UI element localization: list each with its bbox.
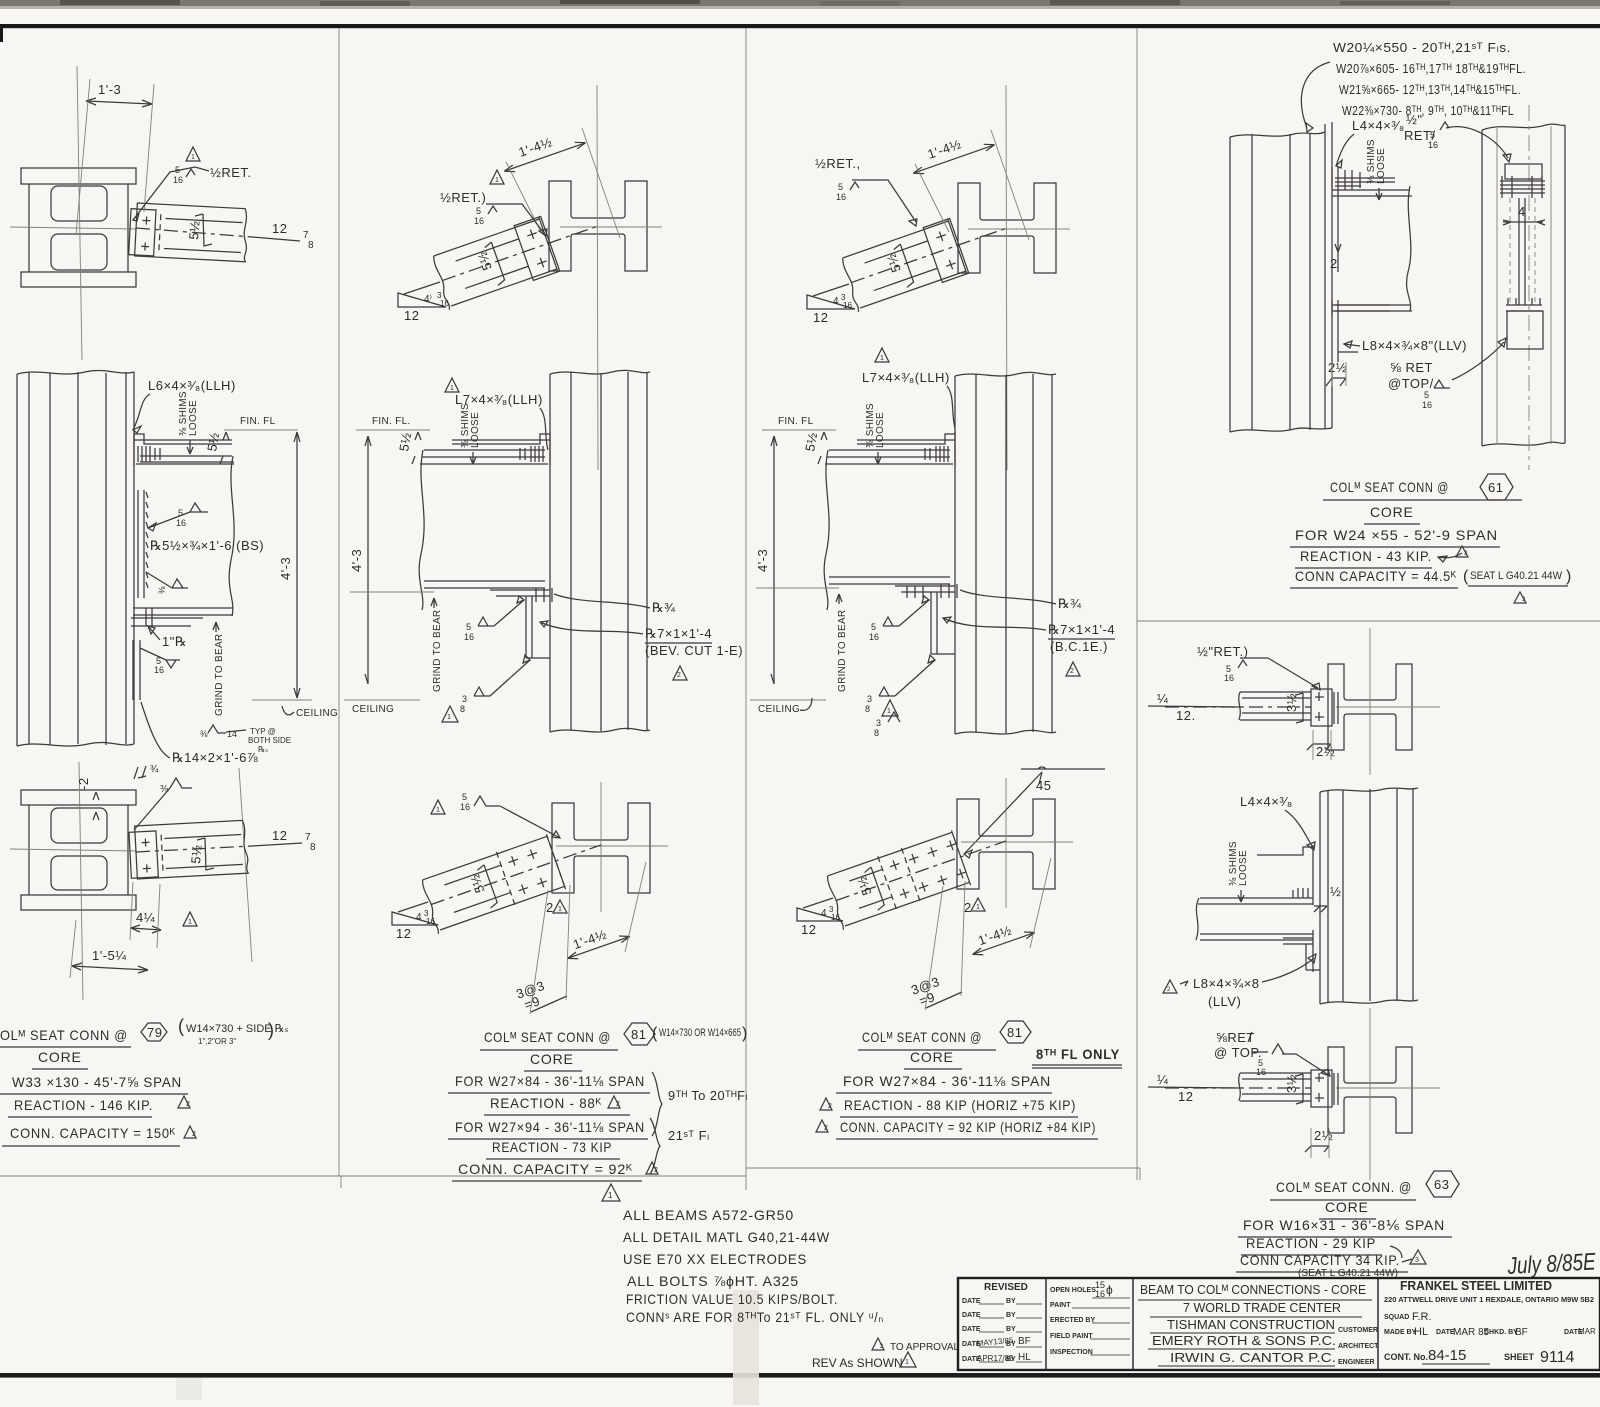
svg-text:SHEET: SHEET — [1504, 1352, 1535, 1362]
beam horizontal from left — [1239, 692, 1311, 720]
detail 1 middle: seat connection elevation — [17, 370, 134, 746]
svg-text:16: 16 — [154, 665, 164, 675]
column plan: bottom flange — [21, 272, 136, 287]
slope triangle 12 / 4-3/16 — [398, 293, 446, 307]
beam W27 from left — [420, 450, 548, 464]
svg-text:8: 8 — [874, 728, 879, 738]
svg-text:⅝ RET: ⅝ RET — [1390, 360, 1433, 375]
svg-text:4⁾: 4⁾ — [424, 294, 433, 305]
svg-text:COLᴹ SEAT CONN @: COLᴹ SEAT CONN @ — [862, 1029, 982, 1045]
svg-text:COLᴹ SEAT CONN @: COLᴹ SEAT CONN @ — [1330, 479, 1449, 495]
svg-text:℞7×1×1'-4: ℞7×1×1'-4 — [645, 626, 712, 641]
beam W27 plan angled — [430, 200, 608, 310]
svg-text:L4×4×³∕₈: L4×4×³∕₈ — [1240, 794, 1293, 809]
scan edge noise band top — [0, 0, 1600, 6]
beam plan bottom (sloped up to right) — [129, 820, 249, 879]
svg-text:16: 16 — [869, 632, 879, 642]
seat angle L6x4x3/8 top — [134, 432, 232, 466]
svg-text:REACTION - 88 KIP (HORIZ +75: REACTION - 88 KIP (HORIZ +75 KIP) — [844, 1097, 1076, 1113]
svg-text:16: 16 — [1256, 1067, 1266, 1077]
svg-text:1'-3: 1'-3 — [98, 82, 121, 97]
svg-text:1: 1 — [558, 906, 562, 913]
svg-text:W22⅜×730- 8ᵀᴴ, 9ᵀᴴ, 10ᵀᴴ&11ᵀᴴ: W22⅜×730- 8ᵀᴴ, 9ᵀᴴ, 10ᵀᴴ&11ᵀᴴFL — [1342, 103, 1514, 118]
slope mark 12 : 7/8 — [252, 237, 300, 241]
svg-text:1: 1 — [450, 385, 454, 392]
svg-text:16: 16 — [836, 192, 846, 202]
svg-text:@TOP/: @TOP/ — [1388, 376, 1434, 391]
detail 3 top: column I-section plan view — [958, 183, 1056, 273]
svg-text:(BEV. CUT 1-E): (BEV. CUT 1-E) — [645, 643, 743, 658]
beam plan angled lower — [419, 819, 611, 934]
plan detail lower — [1328, 1047, 1412, 1133]
svg-text:BOTH SIDE: BOTH SIDE — [248, 736, 291, 745]
svg-text:L7×4×³∕₈(LLH): L7×4×³∕₈(LLH) — [862, 370, 950, 385]
svg-text:¼: ¼ — [1157, 691, 1168, 706]
shims hatch detail 3 — [925, 446, 948, 462]
detail 3 middle: seat connection elevation, column right — [955, 372, 1056, 734]
svg-text:2: 2 — [1330, 256, 1338, 271]
svg-text:REACTION - 43 KIP.: REACTION - 43 KIP. — [1300, 548, 1432, 564]
svg-text:(: ( — [178, 1016, 184, 1036]
svg-text:IRWIN G. CANTOR P.C.: IRWIN G. CANTOR P.C. — [1170, 1350, 1336, 1365]
svg-text:W33 ×130 - 45'-7⅝ SPAN: W33 ×130 - 45'-7⅝ SPAN — [12, 1074, 182, 1090]
svg-text:5: 5 — [466, 622, 471, 632]
svg-text:CONNˢ ARE FOR 8ᵀᴴTo 21ˢᵀ FL.: CONNˢ ARE FOR 8ᵀᴴTo 21ˢᵀ FL. ONLY ᵘ/ₙ — [626, 1309, 884, 1325]
svg-text:12: 12 — [813, 310, 828, 325]
svg-text:GRIND TO BEAR: GRIND TO BEAR — [837, 610, 848, 692]
svg-text:July 8/85E: July 8/85E — [1506, 1248, 1597, 1280]
svg-text:CUSTOMER: CUSTOMER — [1338, 1327, 1378, 1334]
middle-left column — [1050, 1287, 1096, 1356]
svg-text:ALL DETAIL MATL G40,21-44W: ALL DETAIL MATL G40,21-44W — [623, 1229, 830, 1245]
rev triangle — [442, 706, 458, 722]
svg-text:5: 5 — [1424, 390, 1429, 400]
svg-text:16: 16 — [1422, 400, 1432, 410]
weld 5/16 + triangle — [431, 800, 445, 814]
svg-text:TO APPROVAL: TO APPROVAL — [890, 1342, 960, 1353]
svg-text:BF: BF — [1018, 1336, 1031, 1347]
rev triangle 1 above label — [445, 378, 459, 392]
svg-text:BEAM TO COLᴹ CONNECTIONS - CO: BEAM TO COLᴹ CONNECTIONS - CORE — [1140, 1282, 1366, 1297]
svg-text:3: 3 — [876, 718, 881, 728]
vertical separator col3/right — [1136, 28, 1138, 1180]
horizontal separator right blocks — [1137, 620, 1600, 622]
svg-text:2: 2 — [186, 1101, 190, 1108]
svg-text:FOR W27×84 - 36'-11⅛ SPAN: FOR W27×84 - 36'-11⅛ SPAN — [843, 1073, 1051, 1089]
elevation detail — [1320, 788, 1418, 1004]
svg-text:4: 4 — [416, 912, 422, 923]
svg-text:4'-3: 4'-3 — [278, 557, 293, 580]
beam centreline horizontal detail 3 — [968, 228, 1070, 230]
bottom heavy border line — [0, 1373, 1600, 1378]
svg-text:REACTION - 73 KIP: REACTION - 73 KIP — [492, 1139, 612, 1155]
rev triangle 1 — [602, 1184, 620, 1201]
svg-text:4'-3: 4'-3 — [755, 549, 770, 572]
svg-text:(: ( — [652, 1025, 658, 1042]
svg-text:1: 1 — [191, 154, 195, 161]
ceiling — [344, 699, 420, 701]
svg-text:½RET.): ½RET.) — [440, 190, 486, 205]
beam centreline dashed — [136, 228, 252, 237]
beam bottom flange — [133, 608, 233, 615]
svg-text:OPEN HOLES: OPEN HOLES — [1050, 1287, 1096, 1294]
dim 3@3=9 bottom detail 3 — [909, 974, 946, 1010]
leader from list to column — [1301, 62, 1330, 128]
svg-text:DATE: DATE — [962, 1326, 981, 1333]
svg-text:1: 1 — [880, 355, 884, 362]
column shaft elevation — [17, 370, 134, 374]
dim 4'-3 — [296, 432, 298, 698]
svg-text:45: 45 — [1036, 778, 1051, 793]
beam between columns — [1332, 190, 1412, 311]
svg-text:GRIND TO BEAR: GRIND TO BEAR — [214, 634, 225, 716]
dim 1'-3 — [86, 101, 152, 104]
svg-text:3: 3 — [867, 694, 872, 704]
bearing seat below beam — [131, 618, 203, 626]
svg-text:℞¾: ℞¾ — [1058, 596, 1082, 611]
45 deg bevel note detail 3 — [1021, 768, 1105, 770]
svg-text:5: 5 — [175, 165, 180, 175]
svg-text:BY: BY — [1006, 1326, 1016, 1333]
detail 1 bottom: column section plan view — [10, 762, 252, 1000]
svg-text:CONT. No.: CONT. No. — [1384, 1352, 1428, 1362]
svg-text:ERECTED BY: ERECTED BY — [1050, 1317, 1095, 1324]
svg-text:12: 12 — [1178, 1089, 1193, 1104]
svg-text:2½: 2½ — [1314, 1128, 1333, 1143]
svg-text:LOOSE: LOOSE — [1238, 850, 1249, 886]
svg-text:LOOSE: LOOSE — [1376, 148, 1387, 184]
svg-text:½RET.: ½RET. — [210, 165, 252, 180]
svg-text:21ˢᵀ Fₗ: 21ˢᵀ Fₗ — [668, 1128, 710, 1143]
svg-text:W21⅝×665- 12ᵀᴴ,13ᵀᴴ,14ᵀᴴ&15ᵀᴴ: W21⅝×665- 12ᵀᴴ,13ᵀᴴ,14ᵀᴴ&15ᵀᴴFL. — [1339, 82, 1521, 97]
ceiling line + label — [252, 699, 312, 701]
svg-text:12: 12 — [272, 221, 287, 236]
column W14x730 plan: top flange — [21, 168, 136, 184]
rev triangle 1 — [183, 912, 197, 926]
svg-text:12: 12 — [272, 828, 287, 843]
svg-text:LOOSE: LOOSE — [875, 412, 886, 448]
outer box — [958, 1278, 1600, 1370]
rev triangle 1 — [186, 147, 200, 161]
bottom angle L8 — [1332, 300, 1338, 362]
svg-text:W20⅞×605- 16ᵀᴴ,17ᵀᴴ 18ᵀᴴ&19ᵀᴴ: W20⅞×605- 16ᵀᴴ,17ᵀᴴ 18ᵀᴴ&19ᵀᴴFL. — [1336, 61, 1526, 76]
svg-text:℞5½×¾×1'-6 (BS): ℞5½×¾×1'-6 (BS) — [150, 538, 264, 553]
svg-text:81: 81 — [1007, 1025, 1022, 1040]
left edge stub — [0, 24, 3, 42]
svg-text:ARCHITECT: ARCHITECT — [1338, 1343, 1379, 1350]
detail 3 bottom: column I-section plan view — [957, 799, 1055, 889]
svg-text:COLᴹ SEAT CONN @: COLᴹ SEAT CONN @ — [484, 1029, 611, 1045]
svg-text:CEILING: CEILING — [296, 708, 338, 719]
svg-text:W14×730 OR W14×665: W14×730 OR W14×665 — [659, 1027, 741, 1039]
dim 1'-4 1/2 — [498, 124, 587, 175]
svg-text:63: 63 — [1434, 1177, 1449, 1192]
svg-text:CONN CAPACITY 34 KIP.: CONN CAPACITY 34 KIP. — [1240, 1252, 1400, 1268]
svg-text:ϕ: ϕ — [1106, 1283, 1113, 1297]
svg-text:16: 16 — [1224, 673, 1234, 683]
svg-text:2: 2 — [824, 1125, 828, 1132]
svg-text:½": ½" — [1406, 112, 1422, 127]
svg-text:℞7×1×1'-4: ℞7×1×1'-4 — [1048, 622, 1115, 637]
svg-text:USE E70 XX ELECTRODES: USE E70 XX ELECTRODES — [623, 1251, 807, 1267]
L8 label — [1163, 980, 1177, 993]
beam W33 plan (slightly sloped) — [129, 203, 249, 262]
svg-text:FIN. FL.: FIN. FL. — [372, 416, 411, 427]
svg-text:ALL BOLTS ⅞ϕHT. A325: ALL BOLTS ⅞ϕHT. A325 — [627, 1273, 799, 1289]
svg-text:4'-3: 4'-3 — [349, 549, 364, 572]
svg-text:CEILING: CEILING — [352, 704, 394, 715]
svg-text:1"℞: 1"℞ — [162, 634, 187, 649]
svg-text:5: 5 — [871, 622, 876, 632]
svg-text:1: 1 — [905, 1359, 909, 1366]
slope triangle 12 : 4-3/16 detail 3 — [807, 295, 855, 309]
svg-text:FRANKEL STEEL LIMITED: FRANKEL STEEL LIMITED — [1400, 1278, 1552, 1293]
svg-text:16: 16 — [843, 301, 852, 310]
svg-text:1: 1 — [436, 807, 440, 814]
svg-text:FOR W24 ×55 - 52'-9 SPAN: FOR W24 ×55 - 52'-9 SPAN — [1295, 527, 1498, 543]
svg-text:℞14×2×1'-6⅞: ℞14×2×1'-6⅞ — [172, 750, 258, 765]
svg-text:4¼: 4¼ — [136, 910, 155, 925]
bottom angle — [1283, 930, 1320, 972]
svg-text:BY: BY — [1006, 1312, 1016, 1319]
beam tail + slope triangle bottom detail 3 — [803, 898, 833, 908]
svg-text:¼: ¼ — [1157, 1072, 1168, 1087]
shims hatch — [138, 446, 160, 462]
svg-text:CORE: CORE — [1325, 1199, 1369, 1215]
beam W27 plan angled detail 3 — [839, 202, 1017, 312]
bottom plate strip — [133, 640, 140, 700]
faint tape mark — [733, 1290, 759, 1405]
svg-text:4: 4 — [821, 908, 827, 919]
svg-text:℞¾: ℞¾ — [652, 600, 676, 615]
svg-text:BF: BF — [1515, 1327, 1528, 1338]
dim 1'-4 1/2 bottom detail 3 — [967, 916, 1037, 959]
svg-text:CEILING: CEILING — [758, 704, 800, 715]
svg-text:CORE: CORE — [530, 1051, 574, 1067]
svg-text:GRIND TO BEAR: GRIND TO BEAR — [432, 610, 443, 692]
plan detail upper: I-section + beam — [1328, 664, 1412, 750]
rev triangle 1 — [490, 170, 504, 184]
svg-text:MADE BY: MADE BY — [1384, 1329, 1417, 1336]
svg-text:16: 16 — [1428, 140, 1438, 150]
beam web break wavy — [229, 456, 234, 616]
stiffener plate — [138, 490, 144, 598]
dim 4 1/4 — [131, 928, 161, 930]
svg-text:⅜: ⅜ — [200, 729, 208, 739]
svg-text:½RET.,: ½RET., — [815, 156, 861, 171]
svg-text:1: 1 — [447, 714, 451, 721]
svg-text:16: 16 — [464, 632, 474, 642]
svg-text:2½: 2½ — [1316, 744, 1335, 759]
svg-text:16: 16 — [426, 917, 435, 926]
svg-text:ALL BEAMS A572-GR50: ALL BEAMS A572-GR50 — [623, 1207, 794, 1223]
svg-text:SQUAD: SQUAD — [1384, 1314, 1409, 1321]
column centreline — [597, 85, 598, 470]
bolted end plate — [129, 209, 156, 256]
rev triangle 1 above middle — [875, 348, 889, 362]
seat angle L7 detail 3 — [857, 432, 955, 466]
svg-text:3: 3 — [462, 694, 467, 704]
svg-text:FOR W27×94 - 36'-11⅛ SPAN: FOR W27×94 - 36'-11⅛ SPAN — [455, 1119, 645, 1135]
svg-text:8: 8 — [865, 704, 870, 714]
svg-text:16: 16 — [440, 299, 449, 308]
svg-text:L6×4×³∕₈(LLH): L6×4×³∕₈(LLH) — [148, 378, 236, 393]
svg-text:9114: 9114 — [1540, 1349, 1575, 1366]
svg-text:16: 16 — [1095, 1289, 1105, 1299]
svg-text:): ) — [742, 1025, 747, 1042]
svg-text:9ᵀᴴ To 20ᵀᴴFₗ: 9ᵀᴴ To 20ᵀᴴFₗ — [668, 1088, 748, 1103]
svg-text:4: 4 — [833, 296, 839, 307]
svg-text:61: 61 — [1488, 480, 1503, 495]
beam tail line — [404, 282, 440, 294]
svg-text:CONN. CAPACITY = 92ᴷ: CONN. CAPACITY = 92ᴷ — [458, 1161, 633, 1177]
detail 1 top: column section plan view — [10, 66, 136, 360]
svg-text:LOOSE: LOOSE — [470, 412, 481, 448]
svg-text:BY: BY — [1006, 1298, 1016, 1305]
svg-text:1: 1 — [495, 177, 499, 184]
svg-text:⅜: ⅜ — [160, 784, 169, 795]
svg-text:CONN. CAPACITY = 92 KIP (HORI: CONN. CAPACITY = 92 KIP (HORIZ +84 KIP) — [840, 1119, 1096, 1135]
svg-text:L8×4×¾×8: L8×4×¾×8 — [1193, 976, 1260, 991]
svg-text:2: 2 — [677, 672, 681, 679]
svg-text:2: 2 — [654, 1167, 658, 1174]
inner flange edge lines — [166, 219, 243, 223]
svg-text:REACTION - 88ᴷ: REACTION - 88ᴷ — [490, 1095, 602, 1111]
svg-text:TYP @: TYP @ — [250, 727, 276, 736]
beam centreline horizontal — [560, 226, 662, 228]
seat angle L7 — [452, 432, 550, 466]
svg-text:⅜: ⅜ — [157, 586, 167, 594]
svg-text:½"RET.): ½"RET.) — [1197, 644, 1248, 659]
left column elevation — [1230, 122, 1332, 432]
svg-text:FRICTION VALUE 10.5 KIPS/BOL: FRICTION VALUE 10.5 KIPS/BOLT. — [626, 1291, 838, 1307]
svg-text:5: 5 — [476, 206, 481, 216]
svg-text:2½: 2½ — [1328, 360, 1347, 375]
svg-text:HL: HL — [1018, 1352, 1031, 1363]
hexagon 79 — [141, 1023, 167, 1041]
svg-text:-2: -2 — [76, 777, 91, 790]
svg-text:OLᴹ SEAT CONN @: OLᴹ SEAT CONN @ — [0, 1027, 128, 1043]
svg-text:8ᵀᴴ FL ONLY: 8ᵀᴴ FL ONLY — [1036, 1046, 1120, 1062]
svg-text:8: 8 — [460, 704, 465, 714]
bottom border of drawing blocks — [0, 1175, 746, 1177]
svg-text:3: 3 — [1415, 1257, 1419, 1264]
detail 2 bottom: I-section plan — [552, 803, 650, 893]
svg-text:12: 12 — [404, 308, 419, 323]
svg-text:3½: 3½ — [1284, 693, 1299, 712]
svg-text:REVISED: REVISED — [984, 1282, 1028, 1293]
beam W27 elevation top flange detail 3 — [825, 450, 953, 464]
svg-text:W20¼×550 - 20ᵀᴴ,21ˢᵀ Fₗs.: W20¼×550 - 20ᵀᴴ,21ˢᵀ Fₗs. — [1333, 40, 1511, 55]
svg-text:CORE: CORE — [1370, 504, 1414, 520]
seat bracket below beam detail 3 — [895, 586, 955, 592]
svg-text:F.R.: F.R. — [1412, 1311, 1432, 1323]
svg-text:1: 1 — [608, 1191, 613, 1200]
svg-text:¾: ¾ — [150, 764, 159, 775]
svg-text:16: 16 — [474, 216, 484, 226]
svg-text:12.: 12. — [1176, 708, 1196, 723]
svg-text:1: 1 — [188, 919, 192, 926]
svg-text:4: 4 — [1518, 204, 1526, 219]
svg-text:MAR: MAR — [1578, 1327, 1596, 1336]
seat bracket below beam — [490, 590, 550, 596]
dim 4'-3 detail 3 — [773, 436, 775, 684]
column plan: web voids — [51, 186, 107, 221]
svg-text:3½: 3½ — [1284, 1074, 1299, 1093]
svg-text:EMERY ROTH & SONS P.C.: EMERY ROTH & SONS P.C. — [1152, 1333, 1336, 1348]
svg-text:5: 5 — [838, 182, 843, 192]
svg-text:2: 2 — [192, 1131, 196, 1138]
vertical separator col2/col3 — [745, 28, 747, 1190]
svg-text:⅝RET: ⅝RET — [1216, 1030, 1255, 1045]
beam centreline at column — [10, 227, 136, 229]
svg-text:1'-5¼: 1'-5¼ — [92, 948, 127, 963]
svg-text:12: 12 — [396, 926, 411, 941]
svg-text:81: 81 — [631, 1027, 646, 1042]
svg-text:CHKD. BY: CHKD. BY — [1484, 1329, 1518, 1336]
dim 1'-4 1/2 detail 3 — [907, 126, 996, 177]
seat angle + shims left — [1332, 167, 1338, 252]
dim 4'-3 — [367, 436, 369, 684]
svg-text:12: 12 — [801, 922, 816, 937]
approval notes — [872, 1338, 884, 1350]
beam end elevation in right column — [1505, 164, 1542, 179]
svg-text:FOR W27×84 - 36'-11⅛ SPAN: FOR W27×84 - 36'-11⅛ SPAN — [455, 1073, 645, 1089]
top border heavy line — [0, 24, 1600, 28]
svg-text:79: 79 — [147, 1025, 162, 1040]
svg-text:5½: 5½ — [186, 220, 203, 240]
vertical separator col1/col2 — [338, 28, 340, 1176]
svg-text:220 ATTWELL DRIVE UNIT 1 R: 220 ATTWELL DRIVE UNIT 1 REXDALE, ONTARI… — [1384, 1295, 1594, 1304]
svg-text:CONN CAPACITY = 44.5ᴷ: CONN CAPACITY = 44.5ᴷ — [1295, 568, 1457, 584]
svg-text:FOR W16×31 - 36'-8⅙ SPAN: FOR W16×31 - 36'-8⅙ SPAN — [1243, 1217, 1445, 1233]
ceiling line detail 3 — [750, 699, 826, 701]
svg-text:8: 8 — [308, 240, 314, 251]
svg-text:CONN. CAPACITY = 150ᴷ: CONN. CAPACITY = 150ᴷ — [10, 1125, 176, 1141]
svg-text:(: ( — [1463, 568, 1469, 585]
svg-text:REACTION - 146 KIP.: REACTION - 146 KIP. — [14, 1097, 153, 1113]
beam web break wavy detail 3 — [824, 450, 829, 610]
svg-text:ENGINEER: ENGINEER — [1338, 1359, 1375, 1366]
svg-text:16: 16 — [460, 802, 470, 812]
beam W33 from right: top flange — [136, 456, 234, 464]
seat angle top — [1257, 845, 1313, 905]
svg-text:LOOSE: LOOSE — [188, 400, 199, 436]
beam bottom flange detail 3 — [829, 577, 950, 584]
svg-text:L4×4×³∕₈: L4×4×³∕₈ — [1352, 118, 1405, 133]
svg-text:APR17/85: APR17/85 — [977, 1354, 1014, 1363]
svg-text:REACTION - 29 KIP: REACTION - 29 KIP — [1246, 1235, 1376, 1251]
svg-text:FIELD PAINT: FIELD PAINT — [1050, 1333, 1093, 1340]
beam W27 plan angled bottom detail 3 — [824, 815, 1016, 930]
svg-text:2: 2 — [964, 900, 972, 915]
bolts — [141, 216, 151, 250]
svg-text:2: 2 — [1070, 668, 1074, 675]
svg-text:FIN. FL: FIN. FL — [778, 416, 814, 427]
svg-text:℞ₛ: ℞ₛ — [258, 745, 268, 754]
column plan: side plate lines — [28, 184, 30, 272]
column centreline — [77, 66, 82, 360]
svg-text:2: 2 — [828, 1103, 832, 1110]
right column elevation — [1482, 105, 1565, 470]
svg-text:CORE: CORE — [38, 1049, 82, 1065]
svg-text:84-15: 84-15 — [1428, 1347, 1466, 1364]
svg-text:5: 5 — [1430, 130, 1435, 140]
svg-text:REV As SHOWN: REV As SHOWN — [812, 1356, 903, 1370]
svg-text:(B.C.1E.): (B.C.1E.) — [1050, 639, 1108, 654]
svg-text:16: 16 — [831, 913, 840, 922]
svg-text:1",2"OR 3": 1",2"OR 3" — [198, 1037, 236, 1046]
